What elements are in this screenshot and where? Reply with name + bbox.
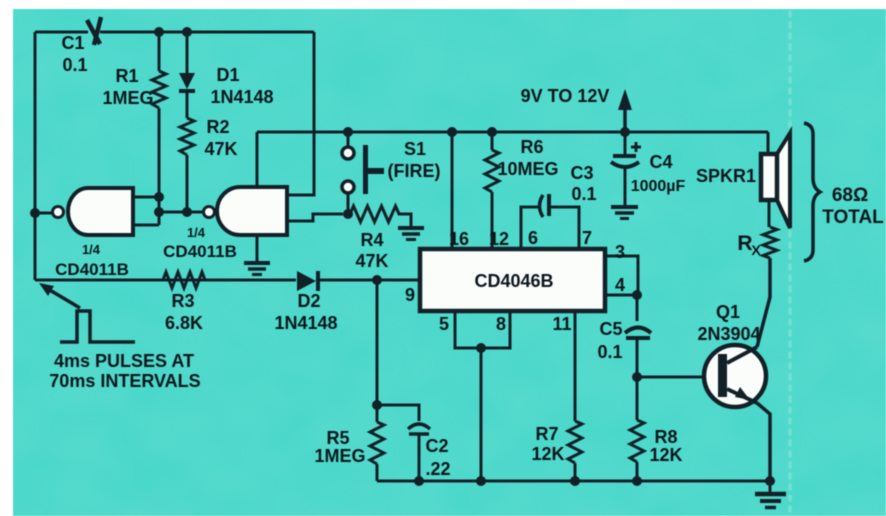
svg-text:1MEG: 1MEG <box>102 88 153 108</box>
node rail junctions <box>343 127 630 137</box>
svg-text:TOTAL: TOTAL <box>822 207 884 228</box>
svg-text:11: 11 <box>552 314 571 334</box>
node S1 bottom <box>343 209 353 219</box>
svg-text:C1: C1 <box>61 33 84 53</box>
junction dots top wire <box>154 27 192 37</box>
node R5 branch on signal line <box>372 275 382 285</box>
svg-text:4: 4 <box>615 275 625 295</box>
svg-text:.22: .22 <box>425 459 450 479</box>
svg-text:1N4148: 1N4148 <box>210 87 273 107</box>
svg-text:3: 3 <box>615 242 625 262</box>
ground at C4 <box>611 207 638 219</box>
svg-text:9: 9 <box>405 285 415 305</box>
svg-text:47K: 47K <box>204 139 237 159</box>
svg-text:C4: C4 <box>649 152 672 172</box>
scan artifact dotted line <box>788 12 792 516</box>
resistor R4 <box>350 206 411 271</box>
wire left vertical <box>34 32 37 280</box>
pin 11 wire resistor R7 <box>531 311 582 481</box>
svg-text:D2: D2 <box>297 291 320 311</box>
wire gate1 inputs <box>133 197 159 225</box>
svg-text:R4: R4 <box>360 230 383 250</box>
svg-text:8: 8 <box>496 314 506 334</box>
svg-text:(FIRE): (FIRE) <box>388 161 441 181</box>
svg-text:CD4046B: CD4046B <box>474 271 553 291</box>
svg-text:CD4011B: CD4011B <box>163 242 237 261</box>
wire gate1 output <box>35 212 52 215</box>
capacitor C2 <box>377 405 451 481</box>
svg-text:12K: 12K <box>649 445 682 465</box>
svg-text:1MEG: 1MEG <box>314 446 365 466</box>
ground R4 <box>398 228 424 240</box>
svg-text:C2: C2 <box>425 436 448 456</box>
svg-text:C3: C3 <box>570 163 593 183</box>
pin 3 wire <box>605 242 638 295</box>
resistor R5 <box>314 405 384 481</box>
svg-text:D1: D1 <box>216 65 239 85</box>
resistor R8 <box>630 377 683 481</box>
svg-text:X: X <box>751 242 761 258</box>
diode D1 <box>179 32 274 118</box>
capacitor C5 <box>597 295 651 377</box>
transistor Q1 2N3904 <box>697 302 766 407</box>
svg-text:R6: R6 <box>520 137 543 157</box>
svg-text:R3: R3 <box>171 291 194 311</box>
op-amp U1a NAND gate 1/4 CD4011B <box>53 188 134 279</box>
resistor R3 <box>163 272 205 333</box>
svg-text:12: 12 <box>489 229 509 249</box>
wire between gates <box>159 211 202 214</box>
svg-text:R2: R2 <box>206 117 229 137</box>
wire bottom signal line <box>35 279 420 282</box>
svg-text:1/4: 1/4 <box>82 242 101 257</box>
svg-text:47K: 47K <box>355 251 388 271</box>
wire gate2 top input <box>256 132 259 187</box>
svg-text:0.1: 0.1 <box>597 342 622 362</box>
IC U2 CD4046B <box>420 249 605 311</box>
speaker SPKR1 <box>696 132 790 228</box>
resistor R1 <box>102 32 166 197</box>
wire emitter <box>757 403 770 481</box>
svg-text:1N4148: 1N4148 <box>274 313 337 333</box>
svg-text:SPKR1: SPKR1 <box>696 166 756 186</box>
svg-text:Q1: Q1 <box>716 302 740 322</box>
op-amp U1b NAND gate 1/4 CD4011B <box>163 187 287 261</box>
svg-text:R8: R8 <box>654 427 677 447</box>
svg-text:2N3904: 2N3904 <box>697 324 760 344</box>
svg-text:12K: 12K <box>531 444 564 464</box>
9V TO 12V supply arrow <box>521 86 632 132</box>
svg-text:1/4: 1/4 <box>187 225 206 240</box>
wire top rail <box>35 31 314 34</box>
svg-text:5: 5 <box>439 314 449 334</box>
capacitor C1 <box>61 17 101 75</box>
svg-text:CD4011B: CD4011B <box>55 260 129 279</box>
switch S1 (FIRE) <box>342 132 441 214</box>
diode D2 <box>274 271 337 333</box>
wire base <box>637 376 718 379</box>
svg-text:7: 7 <box>582 228 592 248</box>
svg-text:6.8K: 6.8K <box>165 313 203 333</box>
svg-text:R1: R1 <box>115 66 138 86</box>
svg-text:0.1: 0.1 <box>62 55 87 75</box>
svg-text:70ms INTERVALS: 70ms INTERVALS <box>49 371 200 391</box>
wire gate2 lower input <box>287 214 343 221</box>
brace 68 ohm total <box>804 123 884 261</box>
wire ground rail <box>377 480 770 483</box>
svg-text:10MEG: 10MEG <box>497 159 558 179</box>
capacitor C4 <box>611 132 686 206</box>
resistor R2 <box>180 117 238 212</box>
wire collector <box>757 258 770 347</box>
wire supply rail <box>257 131 768 134</box>
svg-text:6: 6 <box>528 228 538 248</box>
svg-text:R: R <box>737 232 752 255</box>
svg-text:9V TO 12V: 9V TO 12V <box>521 86 610 106</box>
resistor RX <box>737 227 777 258</box>
node ground rail junctions <box>414 476 775 486</box>
capacitor C3 pins 6-7 <box>521 163 597 249</box>
svg-text:R7: R7 <box>535 424 558 444</box>
pins 5 and 8 loop <box>439 311 510 481</box>
svg-text:S1: S1 <box>404 139 426 159</box>
ground below gate2 <box>244 235 270 275</box>
pin 16 wire <box>449 132 469 249</box>
svg-text:68Ω: 68Ω <box>832 185 868 206</box>
svg-text:R5: R5 <box>326 428 349 448</box>
pin 4 wire <box>605 275 642 300</box>
ground at emitter <box>755 481 786 508</box>
svg-text:1000µF: 1000µF <box>631 178 686 195</box>
svg-text:0.1: 0.1 <box>571 184 596 204</box>
wire x=314 vertical <box>287 32 314 195</box>
node base junction <box>632 372 642 382</box>
callout arrow <box>39 283 80 308</box>
wire down to R5 <box>376 280 379 405</box>
resistor R6 pin 12 <box>485 132 559 249</box>
pulse waveform symbol <box>49 311 200 391</box>
svg-text:C5: C5 <box>599 319 622 339</box>
pin 9 wire <box>405 285 415 305</box>
svg-text:16: 16 <box>449 229 469 249</box>
svg-text:4ms PULSES AT: 4ms PULSES AT <box>54 351 194 371</box>
node gate1 feedback <box>30 192 192 218</box>
node R5 top <box>372 400 382 410</box>
